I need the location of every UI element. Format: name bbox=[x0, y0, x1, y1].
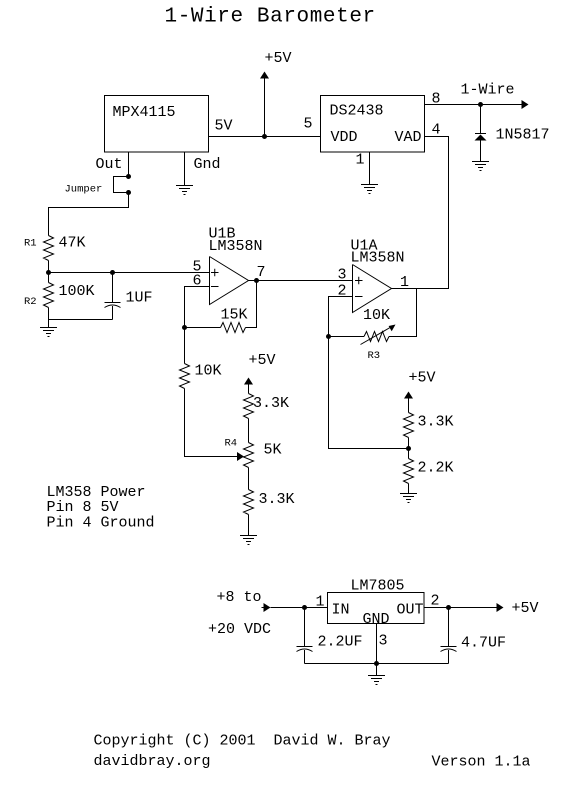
node 5V junction dot bbox=[262, 134, 267, 139]
svg-text:3: 3 bbox=[379, 633, 388, 650]
resistor 3.3K upper-left bbox=[244, 394, 254, 419]
wire inv node to R3 bbox=[329, 336, 365, 338]
potentiometer R3 10K bbox=[364, 332, 389, 342]
wire pin8 1-Wire bbox=[425, 104, 523, 106]
svg-text:+5V: +5V bbox=[249, 352, 276, 369]
label R1 bbox=[24, 238, 37, 250]
label 3.3K right bbox=[418, 414, 454, 431]
op-amp U1A minus sign bbox=[355, 296, 363, 298]
svg-text:VDD: VDD bbox=[331, 129, 358, 146]
wire regulator output bbox=[424, 607, 497, 609]
op-amp U1A plus sign bbox=[355, 277, 363, 285]
power +5V label (right) bbox=[409, 370, 436, 387]
svg-text:3.3K: 3.3K bbox=[418, 414, 454, 431]
svg-text:Jumper: Jumper bbox=[65, 184, 103, 196]
note Pin 4 Ground bbox=[47, 515, 155, 532]
pot R3 wiper arrow bbox=[361, 325, 396, 345]
svg-text:47K: 47K bbox=[59, 235, 86, 252]
wire 15K to output bbox=[246, 281, 257, 328]
wire jumper to R1 bbox=[49, 193, 129, 236]
label VAD bbox=[395, 129, 422, 146]
label MPX4115 bbox=[113, 104, 176, 121]
label 15K bbox=[221, 307, 248, 324]
ground (regulator) bbox=[368, 676, 385, 685]
chip DS2438 box bbox=[321, 96, 425, 153]
svg-text:10K: 10K bbox=[363, 307, 390, 324]
footer davidbray.org bbox=[94, 753, 211, 770]
node U1B inverting node dot bbox=[182, 325, 187, 330]
wire divider to pin5 bbox=[49, 272, 210, 274]
label 1UF bbox=[126, 290, 153, 307]
sensor U? MPX4115 box bbox=[105, 96, 209, 153]
label 2.2UF bbox=[318, 634, 363, 651]
label pin 1 bbox=[400, 274, 409, 291]
svg-text:Pin 4 Ground: Pin 4 Ground bbox=[47, 515, 155, 532]
wire cap bottom rail bbox=[49, 319, 113, 321]
label 47K bbox=[59, 235, 86, 252]
label +20 VDC bbox=[208, 621, 271, 638]
label Jumper bbox=[65, 184, 103, 196]
svg-text:5: 5 bbox=[304, 116, 313, 133]
svg-text:10K: 10K bbox=[195, 363, 222, 380]
svg-text:100K: 100K bbox=[59, 283, 95, 300]
svg-text:2.2K: 2.2K bbox=[418, 460, 454, 477]
svg-text:R4: R4 bbox=[225, 438, 238, 450]
resistor 10K bbox=[180, 364, 190, 389]
label 10K (R3) bbox=[363, 307, 390, 324]
label 100K bbox=[59, 283, 95, 300]
power +5V arrow (left chain) bbox=[244, 378, 253, 394]
node U1B output dot bbox=[254, 278, 259, 283]
ground (R2) bbox=[40, 328, 57, 337]
wire R3 to output bbox=[389, 289, 417, 337]
svg-text:2.2UF: 2.2UF bbox=[318, 634, 363, 651]
ground (1N5817) bbox=[472, 162, 489, 171]
label VDD bbox=[331, 129, 358, 146]
svg-text:3.3K: 3.3K bbox=[259, 491, 295, 508]
label pin 1 (LM7805) bbox=[316, 594, 325, 611]
label R3 bbox=[368, 350, 381, 362]
node 1-Wire dot bbox=[478, 102, 483, 107]
wire 2.2K to ground bbox=[408, 484, 410, 494]
label 3.3K lower-left bbox=[259, 491, 295, 508]
resistor R2 100K bbox=[44, 283, 54, 308]
node jumper bottom dot bbox=[126, 190, 131, 195]
op-amp U1B plus sign bbox=[211, 269, 219, 277]
svg-text:+5V: +5V bbox=[265, 50, 292, 67]
resistor R1 47K bbox=[44, 236, 54, 261]
svg-text:3: 3 bbox=[338, 267, 347, 284]
label pin 2 (LM7805) bbox=[431, 593, 440, 610]
note Pin 8 5V bbox=[47, 499, 119, 516]
op-amp U1B triangle bbox=[210, 257, 249, 305]
svg-text:R1: R1 bbox=[24, 238, 37, 250]
svg-text:4.7UF: 4.7UF bbox=[461, 635, 506, 652]
power +5V arrow (top) bbox=[260, 72, 269, 137]
label Gnd pin bbox=[194, 156, 221, 173]
resistor 3.3K right bbox=[404, 413, 414, 438]
wire 1-Wire to diode bbox=[480, 105, 482, 134]
wire U1A output bbox=[392, 137, 449, 289]
node U1A inverting node dot bbox=[326, 334, 331, 339]
label pin 2 bbox=[338, 283, 347, 300]
footer copyright bbox=[94, 733, 391, 750]
wire R2 bottom to ground bbox=[48, 308, 50, 328]
label LM358N (U1A) bbox=[351, 250, 405, 267]
label Out pin bbox=[96, 156, 123, 173]
svg-text:VAD: VAD bbox=[395, 129, 422, 146]
label pin 3 bbox=[338, 267, 347, 284]
1-Wire output arrow bbox=[522, 100, 529, 109]
node rail ground dot bbox=[374, 661, 379, 666]
svg-text:Out: Out bbox=[96, 156, 123, 173]
resistor 2.2K bbox=[404, 459, 414, 484]
label 1-Wire bbox=[461, 82, 515, 99]
wire input to regulator bbox=[271, 607, 328, 609]
output +5V arrow bbox=[497, 603, 504, 612]
wire inv node to 10K bbox=[184, 328, 186, 364]
capacitor 2.2UF bbox=[297, 647, 313, 652]
label 3.3K upper-left bbox=[253, 395, 289, 412]
label pin 4 bbox=[432, 122, 441, 139]
op-amp U1B minus sign bbox=[211, 286, 219, 288]
wire bottom rail bbox=[305, 663, 449, 665]
diode D? 1N5817 bbox=[475, 134, 487, 141]
wire U1A inv to divider bbox=[329, 337, 409, 449]
svg-text:R2: R2 bbox=[24, 296, 37, 308]
label pin 5 (DS2438) bbox=[304, 116, 313, 133]
label OUT bbox=[397, 602, 424, 619]
wire pin1 to ground bbox=[369, 152, 371, 185]
footer version bbox=[432, 754, 531, 771]
wire diode to ground bbox=[480, 141, 482, 162]
power +5V arrow (right) bbox=[404, 392, 413, 413]
node jumper top dot bbox=[126, 174, 131, 179]
label LM358N (U1B) bbox=[209, 238, 263, 255]
wire jumper loop bbox=[114, 177, 129, 193]
svg-text:LM358N: LM358N bbox=[209, 238, 263, 255]
label GND bbox=[363, 611, 390, 628]
svg-text:LM358N: LM358N bbox=[351, 250, 405, 267]
svg-text:Pin 8 5V: Pin 8 5V bbox=[47, 499, 119, 516]
wire rail to ground bbox=[376, 664, 378, 676]
label IN bbox=[332, 602, 350, 619]
wire Out pin bbox=[128, 152, 130, 177]
wire inv node to 15K bbox=[185, 327, 221, 329]
label DS2438 bbox=[330, 103, 384, 120]
svg-text:LM7805: LM7805 bbox=[351, 578, 405, 595]
regulator LM7805 box bbox=[328, 593, 425, 624]
capacitor C? 1UF bbox=[105, 303, 121, 308]
power +5V label (top) bbox=[265, 50, 292, 67]
label 10K bbox=[195, 363, 222, 380]
label pin 3 (LM7805) bbox=[379, 633, 388, 650]
svg-text:5K: 5K bbox=[264, 442, 282, 459]
svg-text:+20 VDC: +20 VDC bbox=[208, 621, 271, 638]
label LM7805 bbox=[351, 578, 405, 595]
wire 3.3K to 5K bbox=[248, 419, 250, 443]
svg-text:5V: 5V bbox=[215, 118, 233, 135]
svg-text:3.3K: 3.3K bbox=[253, 395, 289, 412]
note LM358 Power bbox=[47, 484, 146, 501]
svg-text:+5V: +5V bbox=[409, 370, 436, 387]
wire R1 to R2 bbox=[48, 261, 50, 283]
wire U1B output bbox=[249, 280, 353, 282]
svg-text:R3: R3 bbox=[368, 350, 381, 362]
label 1N5817 bbox=[496, 127, 550, 144]
svg-text:15K: 15K bbox=[221, 307, 248, 324]
label R4 bbox=[225, 438, 238, 450]
svg-text:1-Wire: 1-Wire bbox=[461, 82, 515, 99]
label +8 to bbox=[217, 589, 262, 606]
label 4.7UF bbox=[461, 635, 506, 652]
title text bbox=[165, 6, 376, 29]
wire cap bottom lead bbox=[112, 306, 114, 320]
power +5V label (left chain) bbox=[249, 352, 276, 369]
resistor 3.3K lower-left bbox=[244, 490, 254, 515]
label pin 5 bbox=[193, 259, 202, 276]
svg-text:IN: IN bbox=[332, 602, 350, 619]
wire pin4 bbox=[425, 136, 449, 138]
wire cap top lead bbox=[112, 273, 114, 303]
wire 3.3K to junction bbox=[408, 438, 410, 459]
svg-text:Copyright (C) 2001 David W. B: Copyright (C) 2001 David W. Bray bbox=[94, 733, 391, 750]
label pin 7 bbox=[257, 264, 266, 281]
node cap branch dot bbox=[110, 270, 115, 275]
input arrow bbox=[262, 603, 271, 612]
svg-text:MPX4115: MPX4115 bbox=[113, 104, 176, 121]
svg-text:4: 4 bbox=[432, 122, 441, 139]
wire output cap to rail bbox=[448, 650, 450, 664]
svg-text:Verson 1.1a: Verson 1.1a bbox=[432, 754, 531, 771]
wire 10K to R4 wiper bbox=[185, 389, 238, 457]
wiper arrow into R4 bbox=[237, 452, 244, 461]
wire output cap lead bbox=[448, 608, 450, 647]
label pin 6 bbox=[193, 273, 202, 290]
op-amp U1A triangle bbox=[353, 265, 392, 313]
label pin 8 bbox=[432, 91, 441, 108]
label +5V output bbox=[512, 600, 539, 617]
wire pin6 feedback drop bbox=[185, 287, 210, 328]
wire pin3 to rail bbox=[376, 624, 378, 664]
wire pin2 drop bbox=[329, 297, 353, 337]
svg-text:1: 1 bbox=[356, 152, 365, 169]
svg-text:2: 2 bbox=[431, 593, 440, 610]
label 5K bbox=[264, 442, 282, 459]
ground (2.2K) bbox=[400, 494, 417, 503]
node output cap dot bbox=[446, 605, 451, 610]
wire 5V: MPX4115 to DS2438 bbox=[209, 136, 321, 138]
label 2.2K bbox=[418, 460, 454, 477]
ground (MPX4115 Gnd) bbox=[176, 186, 193, 195]
label U1A bbox=[351, 238, 378, 255]
potentiometer R4 5K bbox=[244, 443, 254, 468]
label R2 bbox=[24, 296, 37, 308]
wire 5K to 3.3K lower bbox=[248, 468, 250, 490]
ground (DS2438) bbox=[361, 185, 378, 194]
node R1/R2 junction dot bbox=[46, 270, 51, 275]
svg-text:1-Wire Barometer: 1-Wire Barometer bbox=[165, 6, 376, 29]
resistor 15K bbox=[221, 323, 246, 333]
svg-text:DS2438: DS2438 bbox=[330, 103, 384, 120]
svg-text:davidbray.org: davidbray.org bbox=[94, 753, 211, 770]
svg-text:1: 1 bbox=[316, 594, 325, 611]
svg-text:1UF: 1UF bbox=[126, 290, 153, 307]
capacitor 4.7UF bbox=[441, 647, 457, 652]
node input cap dot bbox=[302, 605, 307, 610]
svg-text:1N5817: 1N5817 bbox=[496, 127, 550, 144]
label pin 1 (DS2438) bbox=[356, 152, 365, 169]
node divider junction dot bbox=[406, 446, 411, 451]
label U1B bbox=[209, 226, 236, 243]
svg-text:OUT: OUT bbox=[397, 602, 424, 619]
wire 3.3K lower to ground bbox=[248, 515, 250, 536]
wire input cap lead bbox=[304, 608, 306, 647]
label 5V pin bbox=[215, 118, 233, 135]
wire input cap to rail bbox=[304, 650, 306, 664]
svg-text:Gnd: Gnd bbox=[194, 156, 221, 173]
svg-text:+8 to: +8 to bbox=[217, 589, 262, 606]
svg-text:+5V: +5V bbox=[512, 600, 539, 617]
wire Gnd pin bbox=[184, 152, 186, 186]
ground (left chain) bbox=[240, 536, 257, 545]
